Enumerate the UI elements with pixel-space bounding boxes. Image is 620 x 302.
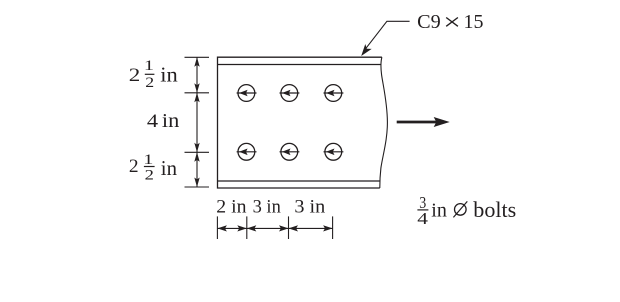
tick at channel bottom bbox=[185, 186, 210, 188]
force arrow (applied load, pointing right) bbox=[397, 117, 450, 127]
bolt B2 (row 1, col 2) bbox=[280, 85, 300, 102]
svg-text:in: in bbox=[431, 200, 447, 222]
left dim arrowheads bbox=[194, 57, 199, 187]
diameter symbol bbox=[455, 204, 467, 216]
svg-text:bolts: bolts bbox=[473, 197, 516, 222]
break line (wavy right edge) bbox=[380, 57, 388, 188]
tick below bolt col 3 bbox=[332, 216, 334, 239]
tick below bolt col 2 bbox=[288, 216, 290, 239]
svg-text:1: 1 bbox=[143, 150, 153, 167]
tick below channel left edge bbox=[216, 216, 218, 239]
label 3/4 in dia bolts bbox=[417, 193, 516, 228]
svg-text:in: in bbox=[160, 63, 178, 87]
svg-text:2: 2 bbox=[129, 65, 141, 86]
svg-text:3 in: 3 in bbox=[253, 197, 282, 218]
bolt B6 (row 2, col 3) bbox=[324, 143, 344, 160]
channel top flange inner line bbox=[218, 64, 382, 66]
bottom dim arrowheads bbox=[217, 225, 332, 231]
label 2 1/2 in (top) bbox=[129, 56, 178, 91]
bolt B1 (row 1, col 1) bbox=[237, 85, 257, 102]
svg-text:4: 4 bbox=[417, 209, 428, 228]
leader arrowhead bbox=[361, 44, 372, 56]
tick at bottom bolt row bbox=[185, 151, 210, 153]
bolt B4 (row 2, col 1) bbox=[237, 143, 257, 160]
svg-text:C9: C9 bbox=[417, 11, 441, 33]
bolt B3 (row 1, col 3) bbox=[324, 85, 344, 102]
svg-text:3 in: 3 in bbox=[294, 197, 325, 218]
svg-text:4: 4 bbox=[147, 112, 158, 132]
svg-text:2: 2 bbox=[129, 156, 139, 177]
svg-text:15: 15 bbox=[464, 11, 484, 33]
dim line segment 3in (second) bbox=[289, 227, 333, 229]
svg-text:in: in bbox=[161, 156, 178, 180]
left dimension line group bbox=[185, 57, 210, 187]
bottom dimension line group bbox=[217, 216, 332, 239]
channel bottom flange inner line bbox=[218, 180, 381, 182]
svg-text:2: 2 bbox=[145, 168, 154, 184]
tick at top bolt row bbox=[185, 92, 210, 94]
dim line segment 3in (first) bbox=[247, 227, 289, 229]
svg-text:in: in bbox=[162, 111, 180, 132]
tick at channel top bbox=[185, 56, 210, 58]
svg-text:2 in: 2 in bbox=[216, 197, 247, 218]
dim line segment 2in bbox=[217, 227, 246, 229]
label 2 1/2 in (bottom) bbox=[129, 150, 178, 183]
label 4 in bbox=[147, 111, 180, 132]
channel C9x15 outline (top edge, left edge, bottom edge) bbox=[218, 57, 382, 188]
tick below bolt col 1 bbox=[246, 216, 248, 239]
leader line to C9x15 label bbox=[364, 21, 410, 51]
label C9 x 15 bbox=[417, 11, 483, 33]
svg-text:2: 2 bbox=[145, 75, 154, 91]
bolt B5 (row 2, col 2) bbox=[280, 143, 300, 160]
svg-text:1: 1 bbox=[144, 56, 154, 73]
vertical dimension line bbox=[196, 57, 198, 187]
